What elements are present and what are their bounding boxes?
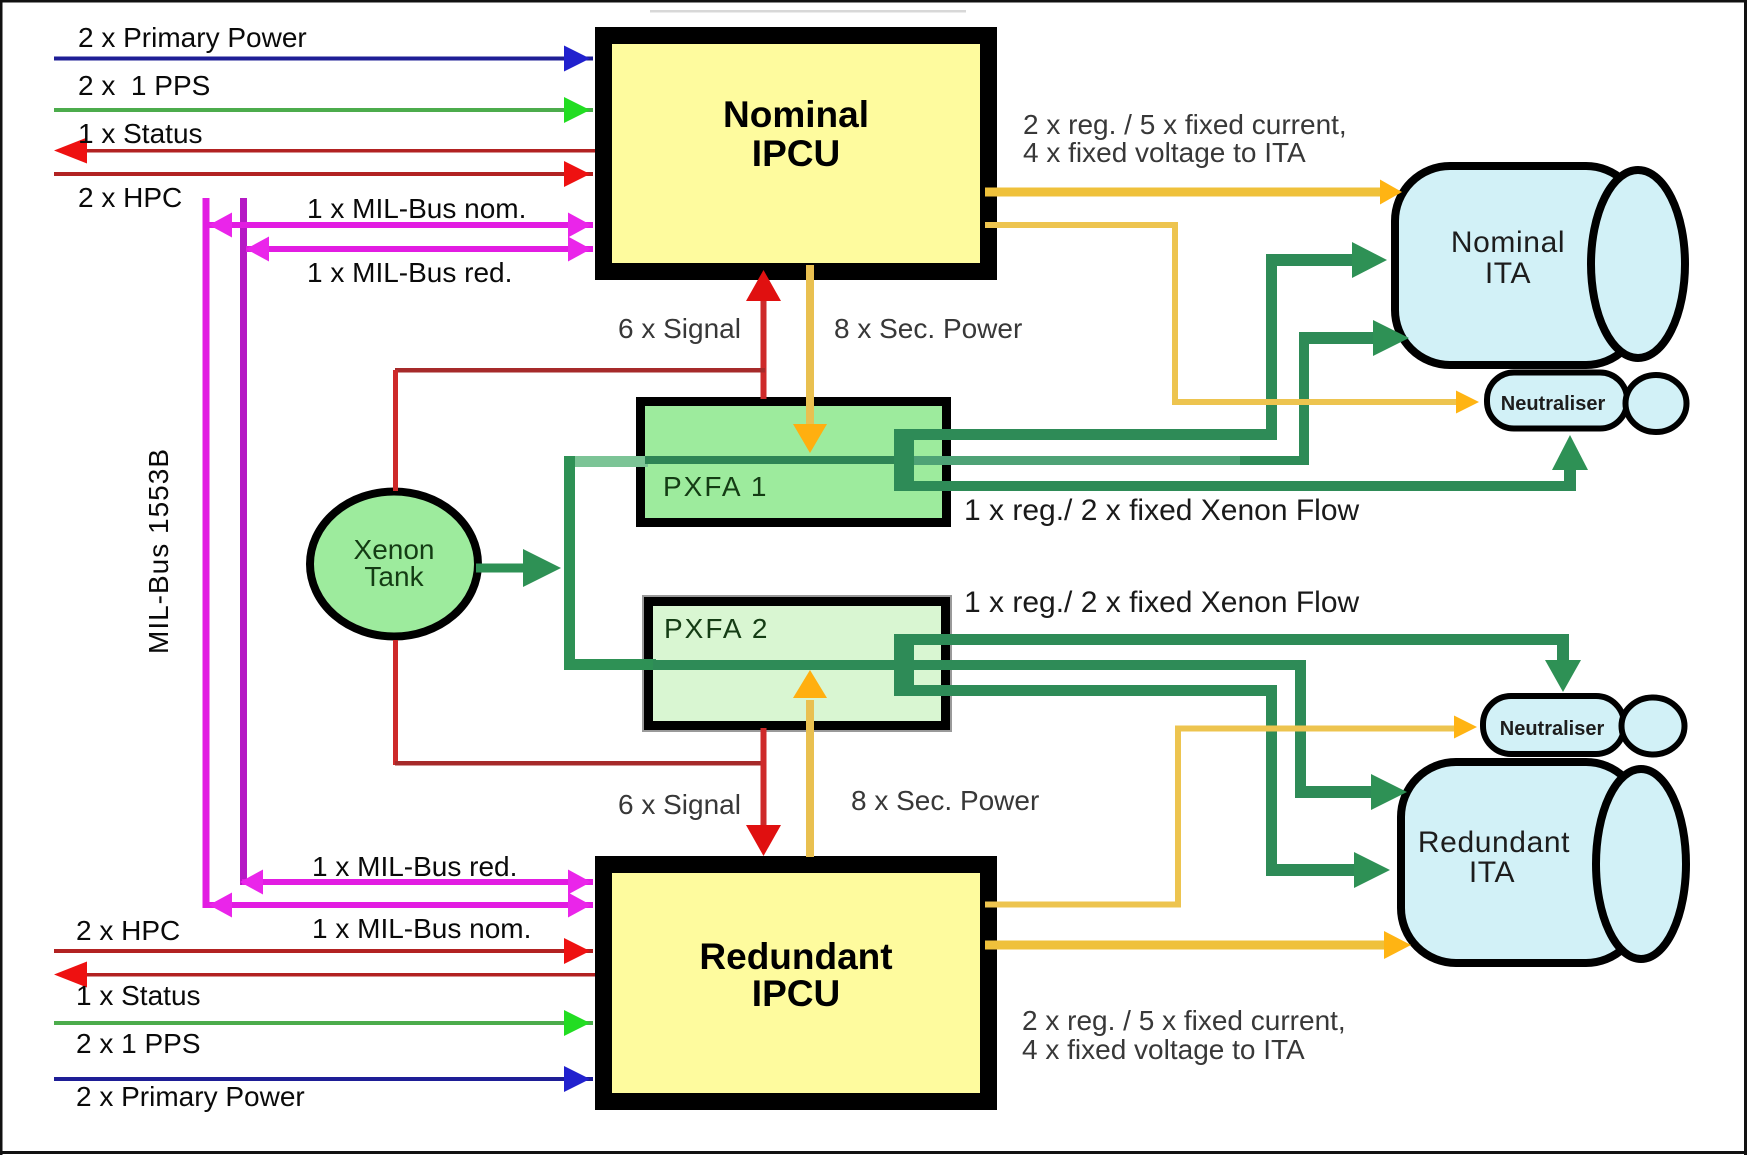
svg-text:1 x MIL-Bus red.: 1 x MIL-Bus red.: [307, 257, 512, 288]
svg-text:2 x reg. / 5 x fixed current,: 2 x reg. / 5 x fixed current,: [1022, 1005, 1346, 1036]
svg-text:2 x Primary Power: 2 x Primary Power: [78, 22, 307, 53]
svg-text:2 x 1 PPS: 2 x 1 PPS: [76, 1028, 201, 1059]
svg-text:ITA: ITA: [1485, 257, 1531, 290]
svg-text:8 x Sec. Power: 8 x Sec. Power: [834, 313, 1022, 344]
svg-text:8 x Sec. Power: 8 x Sec. Power: [851, 785, 1039, 816]
svg-text:2 x HPC: 2 x HPC: [78, 182, 182, 213]
svg-text:6 x Signal: 6 x Signal: [618, 789, 741, 820]
svg-text:Nominal: Nominal: [1451, 226, 1565, 259]
svg-text:IPCU: IPCU: [752, 973, 840, 1014]
svg-text:1 x Status: 1 x Status: [76, 980, 201, 1011]
svg-text:2 x Primary Power: 2 x Primary Power: [76, 1081, 305, 1112]
svg-text:2 x HPC: 2 x HPC: [76, 915, 180, 946]
svg-text:4 x fixed voltage to ITA: 4 x fixed voltage to ITA: [1022, 1034, 1305, 1065]
svg-text:Neutraliser: Neutraliser: [1501, 393, 1606, 415]
svg-text:2 x reg. / 5 x fixed current,: 2 x reg. / 5 x fixed current,: [1023, 109, 1347, 140]
svg-text:Redundant: Redundant: [699, 936, 892, 977]
svg-text:1 x MIL-Bus nom.: 1 x MIL-Bus nom.: [307, 193, 526, 224]
svg-text:1 x reg./ 2 x fixed Xenon Flow: 1 x reg./ 2 x fixed Xenon Flow: [964, 494, 1360, 527]
svg-text:ITA: ITA: [1469, 856, 1515, 889]
svg-text:Redundant: Redundant: [1418, 826, 1570, 859]
svg-text:PXFA 2: PXFA 2: [664, 613, 769, 644]
svg-text:1 x MIL-Bus red.: 1 x MIL-Bus red.: [312, 851, 517, 882]
svg-text:Tank: Tank: [364, 561, 424, 592]
svg-text:1 x MIL-Bus nom.: 1 x MIL-Bus nom.: [312, 913, 531, 944]
svg-text:Nominal: Nominal: [723, 94, 869, 135]
svg-text:4 x fixed voltage to ITA: 4 x fixed voltage to ITA: [1023, 137, 1306, 168]
svg-text:1 x reg./ 2 x fixed Xenon Flow: 1 x reg./ 2 x fixed Xenon Flow: [964, 586, 1360, 619]
svg-text:IPCU: IPCU: [752, 133, 840, 174]
svg-text:6 x Signal: 6 x Signal: [618, 313, 741, 344]
svg-text:Neutraliser: Neutraliser: [1500, 718, 1605, 740]
svg-text:2 x 1 PPS: 2 x 1 PPS: [78, 70, 210, 101]
svg-text:PXFA 1: PXFA 1: [663, 471, 768, 502]
svg-text:1 x Status: 1 x Status: [78, 118, 203, 149]
svg-text:MIL-Bus 1553B: MIL-Bus 1553B: [143, 448, 174, 654]
